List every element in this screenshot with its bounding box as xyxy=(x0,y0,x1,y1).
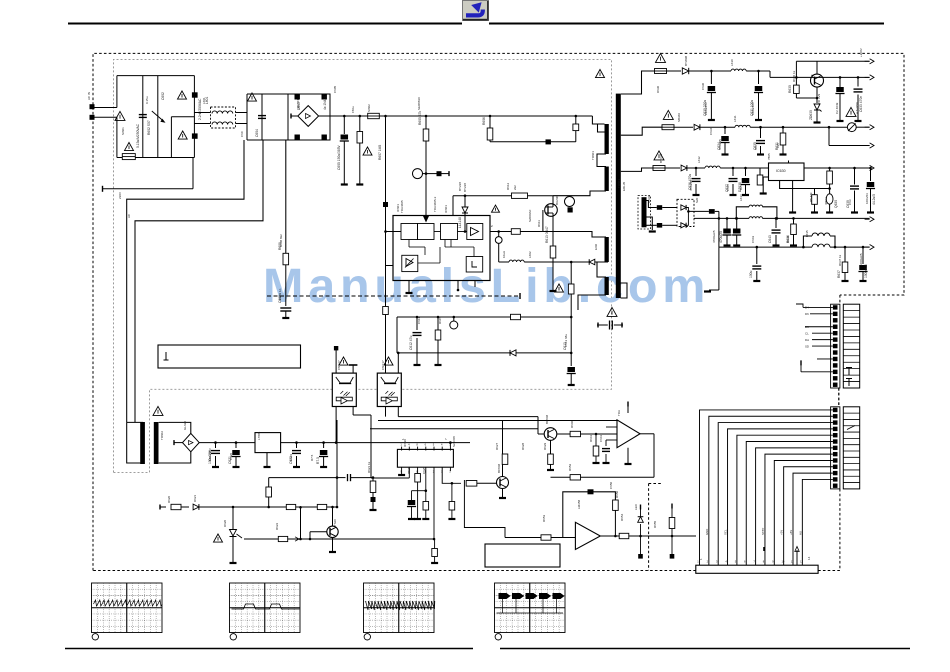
regulator ground pin xyxy=(792,181,794,212)
svg-text:AC IN: AC IN xyxy=(87,92,91,100)
transistor T620 xyxy=(327,526,338,537)
feedback capacitor C650 xyxy=(563,492,616,538)
dashed border segment bottom-right xyxy=(648,484,650,571)
capacitor C631 xyxy=(758,71,760,84)
svg-text:TDA: TDA xyxy=(617,410,621,416)
long feedback wire xyxy=(378,420,617,422)
primary winding bar 2 xyxy=(605,167,609,192)
svg-text:IC601: IC601 xyxy=(396,204,400,212)
long pin wire to SCR xyxy=(433,467,435,539)
svg-text:EI40: EI40 xyxy=(594,243,598,250)
waveform grid 4 xyxy=(495,583,566,633)
feedback winding bar xyxy=(605,237,609,262)
svg-text:C620: C620 xyxy=(229,452,233,460)
pin test circle xyxy=(495,237,502,244)
svg-text:+5V: +5V xyxy=(780,530,784,535)
16V rail xyxy=(694,217,749,219)
svg-text:C612 47u: C612 47u xyxy=(409,336,413,350)
op-amp IC622 xyxy=(575,522,600,549)
snubber branch xyxy=(575,116,577,124)
svg-text:BYW98: BYW98 xyxy=(684,55,688,66)
svg-text:LM358: LM358 xyxy=(577,499,581,509)
resistor R636 xyxy=(793,218,795,224)
capacitor C613 xyxy=(570,353,572,366)
resistor R608 xyxy=(283,253,289,264)
capacitor C642 xyxy=(736,218,738,228)
svg-text:IC601: IC601 xyxy=(444,205,448,213)
svg-text:R655: R655 xyxy=(653,520,657,528)
collector wire out xyxy=(816,61,818,74)
feedback resistor R650 xyxy=(613,500,619,510)
rail +A diode xyxy=(682,68,688,74)
wire staircase 2 xyxy=(135,140,263,422)
svg-text:AU: AU xyxy=(798,531,802,535)
Y-capacitor across isolation xyxy=(607,307,617,316)
wire staircase 1 xyxy=(127,140,244,422)
optocoupler IC603 xyxy=(377,373,401,406)
svg-text:LL4148: LL4148 xyxy=(458,217,462,228)
svg-text:R605 47k: R605 47k xyxy=(418,111,422,125)
warning triangle xyxy=(555,284,564,292)
svg-text:L602: L602 xyxy=(528,251,532,258)
svg-text:IC630: IC630 xyxy=(776,169,786,173)
svg-text:R637: R637 xyxy=(837,270,841,278)
IC internal wires xyxy=(434,231,441,233)
capacitor C602 xyxy=(192,92,198,97)
capacitor C622 xyxy=(296,443,298,448)
gate resistor R622 xyxy=(244,538,278,540)
core right lower step xyxy=(621,283,628,298)
regulator top pin xyxy=(788,161,790,164)
waveform grid 1 xyxy=(92,583,163,633)
svg-text:C604: C604 xyxy=(255,129,259,137)
gate resistor R611 xyxy=(511,229,520,235)
optocoupler IC602 pins xyxy=(335,350,337,373)
page footer rule right xyxy=(500,648,910,650)
waveform grid 3 xyxy=(364,583,435,633)
warning triangle xyxy=(339,357,348,365)
aux winding taps xyxy=(647,201,657,208)
aux winding bar xyxy=(642,197,647,227)
clamp diode D611 xyxy=(464,196,466,232)
bottom connector bar xyxy=(696,565,818,573)
svg-text:150u: 150u xyxy=(351,106,355,113)
svg-text:R636: R636 xyxy=(786,235,790,243)
IC output wire xyxy=(490,231,511,233)
warning triangle xyxy=(115,111,125,120)
warning triangle xyxy=(656,53,666,62)
secondary tap wires xyxy=(621,71,656,94)
svg-text:ZD 3V9: ZD 3V9 xyxy=(817,93,821,104)
svg-text:R620: R620 xyxy=(167,495,171,503)
warning triangle xyxy=(153,406,163,415)
fuse SI601 xyxy=(122,154,135,160)
svg-text:100n/63: 100n/63 xyxy=(865,193,869,204)
svg-text:R637 1k: R637 1k xyxy=(838,254,842,266)
test circle xyxy=(453,317,455,321)
IC inner block 2 xyxy=(418,224,435,240)
rail jog xyxy=(769,71,771,77)
warning triangle xyxy=(654,151,664,160)
svg-text:L7805: L7805 xyxy=(257,431,261,440)
svg-text:C605 150u/385V: C605 150u/385V xyxy=(337,144,341,170)
op-amp output xyxy=(600,535,619,537)
VDR R602 xyxy=(152,111,164,122)
input network xyxy=(505,537,541,539)
IC620 right pin to T621 xyxy=(442,467,461,483)
svg-text:BYV28: BYV28 xyxy=(659,153,663,163)
mains fuse SI602 xyxy=(368,113,380,118)
capacitor C630 xyxy=(710,71,712,84)
clamp resistor R612 xyxy=(512,193,528,198)
transistor T622 xyxy=(544,428,557,441)
supply resistor R617 xyxy=(511,314,521,319)
optocoupler IC603 pins xyxy=(385,266,387,307)
CN1 terminal stub xyxy=(801,371,833,373)
svg-text:C622: C622 xyxy=(289,453,293,461)
svg-text:0.15u/M250VAC: 0.15u/M250VAC xyxy=(136,123,140,148)
source resistor R613 xyxy=(550,246,556,258)
svg-text:SB360: SB360 xyxy=(677,113,681,122)
svg-text:ManualsLib.com: ManualsLib.com xyxy=(263,259,710,313)
startup feed wire xyxy=(490,141,576,143)
svg-text:L631: L631 xyxy=(733,115,737,122)
primary winding bar xyxy=(605,124,609,154)
svg-text:SI602: SI602 xyxy=(367,104,371,112)
wire to opto feedback xyxy=(408,467,410,478)
svg-text:C605: C605 xyxy=(333,85,337,93)
svg-text:C625: C625 xyxy=(422,466,426,474)
svg-text:Q630: Q630 xyxy=(834,200,838,208)
svg-text:CNY17: CNY17 xyxy=(381,360,385,370)
svg-text:C60: C60 xyxy=(240,131,244,137)
wire to audio mute xyxy=(449,467,451,471)
harness stub terminal xyxy=(796,550,798,565)
warning triangle xyxy=(846,107,856,116)
inductor L631 xyxy=(735,125,750,127)
svg-text:R7.5: R7.5 xyxy=(310,454,314,461)
svg-text:GND: GND xyxy=(705,529,709,535)
svg-text:C613 68u: C613 68u xyxy=(564,334,568,347)
grid circle xyxy=(364,634,370,640)
svg-text:C637: C637 xyxy=(726,183,730,191)
svg-text:T620: T620 xyxy=(333,519,337,526)
svg-text:47n: 47n xyxy=(754,145,758,150)
page footer rule left xyxy=(65,648,473,650)
svg-text:C2 4049: C2 4049 xyxy=(835,102,839,114)
inductor L633 bypass loop xyxy=(736,207,749,219)
outer dashed border xyxy=(93,53,904,570)
IC bottom pins xyxy=(408,281,410,293)
regulator IC630 xyxy=(769,163,805,181)
rail +A wire xyxy=(707,70,731,72)
capacitor C632 xyxy=(839,77,841,87)
resistor R630 xyxy=(795,76,798,79)
drain test circle xyxy=(565,197,575,207)
svg-text:BUZ90: BUZ90 xyxy=(555,195,559,205)
choke L635 xyxy=(812,244,830,247)
part number label box xyxy=(158,345,301,368)
svg-text:R608 8k2: R608 8k2 xyxy=(279,234,283,247)
svg-text:LED: LED xyxy=(634,503,638,510)
capacitor C640 xyxy=(870,168,872,181)
svg-text:S24C08: S24C08 xyxy=(452,436,456,447)
svg-text:C63: C63 xyxy=(848,199,852,205)
svg-text:C643: C643 xyxy=(751,235,755,243)
capacitor C644 xyxy=(862,247,864,264)
svg-text:CNY17: CNY17 xyxy=(337,360,341,370)
svg-text:4x 1N4007: 4x 1N4007 xyxy=(323,94,327,110)
standby lower rail xyxy=(159,505,161,510)
svg-text:GL601: GL601 xyxy=(296,99,300,108)
inductor L633 xyxy=(749,217,763,219)
MOSFET T601 xyxy=(545,204,558,217)
capacitor C637 xyxy=(732,168,734,176)
transformer TR601 core xyxy=(616,94,621,298)
rail +A fuse xyxy=(655,69,667,74)
rail 3 fuse xyxy=(653,166,665,171)
svg-text:ZD630: ZD630 xyxy=(809,110,813,120)
svg-text:100u: 100u xyxy=(749,270,753,278)
vcc feed resistor R618 xyxy=(570,262,572,284)
thyristor D620 xyxy=(232,507,234,529)
svg-text:100u/40V: 100u/40V xyxy=(751,102,755,115)
svg-text:SD: SD xyxy=(805,344,809,348)
svg-text:470u/25: 470u/25 xyxy=(689,180,693,191)
warning triangle xyxy=(363,147,372,155)
capacitor C643 xyxy=(775,218,777,228)
capacitor C620 xyxy=(215,443,217,448)
open link symbol xyxy=(847,123,856,132)
svg-text:4.7u/250: 4.7u/250 xyxy=(855,102,859,114)
IC inner block 1 xyxy=(401,224,418,240)
mains connector xyxy=(90,104,95,109)
warning triangle xyxy=(492,205,500,212)
warning triangle xyxy=(663,110,673,119)
filter box wires xyxy=(117,75,194,77)
svg-text:D4: D4 xyxy=(805,306,809,310)
svg-text:10uH: 10uH xyxy=(502,251,506,258)
svg-text:SI601: SI601 xyxy=(121,127,125,135)
svg-text:7805: 7805 xyxy=(767,153,771,160)
svg-text:L632: L632 xyxy=(697,156,701,163)
inductor L630 xyxy=(731,69,746,71)
rail link wire xyxy=(300,507,302,539)
rail 2 fuse xyxy=(662,125,674,130)
svg-text:CL: CL xyxy=(805,331,809,335)
resistor R634 xyxy=(829,168,831,171)
svg-text:470u/25: 470u/25 xyxy=(719,231,723,243)
capacitor C638 xyxy=(745,168,747,176)
svg-text:BC848: BC848 xyxy=(545,414,549,424)
resistor R625 xyxy=(417,467,419,473)
IC inner block ref xyxy=(402,255,418,271)
resistor R624 xyxy=(317,504,319,507)
svg-text:230V: 230V xyxy=(118,192,122,199)
svg-text:L633: L633 xyxy=(739,194,743,201)
svg-text:R628: R628 xyxy=(521,442,525,450)
capacitor C635 xyxy=(760,127,762,138)
regulator IC620 xyxy=(255,433,281,453)
svg-text:R615: R615 xyxy=(438,316,442,324)
resistor R637 xyxy=(844,247,846,262)
svg-text:ERL35: ERL35 xyxy=(622,181,626,191)
inductor L632 xyxy=(705,166,720,168)
warning triangle xyxy=(125,142,134,150)
capacitor C605 xyxy=(343,116,345,134)
capacitor C609 xyxy=(280,307,291,309)
waveform grid 2 xyxy=(230,583,301,633)
capacitor C601 xyxy=(139,114,147,116)
service label box xyxy=(485,544,560,567)
op-amp input resistors xyxy=(606,426,617,428)
harness terminal xyxy=(763,547,765,551)
aux rail vertical xyxy=(718,211,720,247)
svg-text:2k2: 2k2 xyxy=(513,185,517,190)
connector ladder CN1 pin column xyxy=(831,304,840,388)
resistor R635 xyxy=(814,189,816,195)
svg-text:4MHz: 4MHz xyxy=(824,197,828,205)
feedback wire with coil xyxy=(498,243,500,262)
regulator feedback wire xyxy=(780,181,830,189)
test point circle xyxy=(413,169,423,179)
svg-text:C634: C634 xyxy=(709,127,713,135)
svg-text:TDA4605-3: TDA4605-3 xyxy=(433,196,437,212)
svg-text:D633: D633 xyxy=(647,195,651,203)
svg-text:D6: D6 xyxy=(805,312,809,316)
resistor R627 xyxy=(451,482,454,485)
connector ladder CN1 xyxy=(843,304,859,388)
svg-text:1k5: 1k5 xyxy=(776,143,780,148)
warning triangle xyxy=(214,534,223,542)
svg-text:R5 47k: R5 47k xyxy=(809,192,813,202)
capacitor C636 xyxy=(695,168,697,176)
capacitor C641 xyxy=(726,218,728,228)
svg-text:R613 0R47: R613 0R47 xyxy=(545,226,549,243)
svg-text:1000u/16: 1000u/16 xyxy=(864,264,868,278)
resistor R623 xyxy=(268,487,270,507)
svg-text:R629: R629 xyxy=(543,442,547,450)
svg-text:L635: L635 xyxy=(805,230,809,237)
rail 2 diode xyxy=(694,124,700,130)
svg-text:R607 1M5: R607 1M5 xyxy=(378,145,382,160)
capacitor C603 xyxy=(192,133,198,138)
resistor R626 xyxy=(432,549,438,557)
IC inner block 3 xyxy=(441,224,458,240)
IC inner block latch xyxy=(466,257,483,273)
dashed link between connectors xyxy=(838,388,840,407)
rail 3 diode xyxy=(681,165,687,171)
resistor R651 xyxy=(671,529,673,536)
svg-text:0.15u: 0.15u xyxy=(145,96,149,104)
svg-text:DA: DA xyxy=(805,338,809,342)
svg-text:D630: D630 xyxy=(656,85,660,93)
page header rule right xyxy=(489,23,884,25)
resonator Q630 xyxy=(826,194,833,204)
warning triangle xyxy=(178,131,187,139)
CN1 T marks xyxy=(846,368,852,387)
svg-text:470u/35: 470u/35 xyxy=(718,139,722,150)
resistor R632 xyxy=(759,168,761,175)
svg-text:C630: C630 xyxy=(701,82,705,90)
svg-text:R606: R606 xyxy=(482,117,486,125)
svg-text:R654: R654 xyxy=(620,513,624,521)
svg-text:+200V: +200V xyxy=(859,48,863,57)
svg-text:D621: D621 xyxy=(193,494,197,502)
harness staircase wires xyxy=(700,410,833,565)
standby secondary loop xyxy=(159,422,191,433)
capacitor C604 xyxy=(258,115,266,117)
bridge rectifier GL601 xyxy=(288,94,330,140)
rail 2b out xyxy=(828,127,830,145)
bridge capacitors xyxy=(295,95,300,100)
standby transformer TR602 bars xyxy=(140,422,145,464)
svg-text:R630 1k: R630 1k xyxy=(792,70,796,82)
svg-text:TR601: TR601 xyxy=(591,151,595,160)
optocoupler IC602 xyxy=(332,373,356,406)
svg-text:SER8810: SER8810 xyxy=(417,97,421,110)
+310V rail xyxy=(319,115,593,117)
svg-text:D620: D620 xyxy=(223,519,227,527)
page header rule left xyxy=(68,23,462,25)
wires after choke xyxy=(246,94,248,140)
svg-text:R602 S07: R602 S07 xyxy=(147,120,151,135)
svg-text:STBY: STBY xyxy=(761,528,765,535)
resistor R604 xyxy=(359,116,361,132)
svg-text:R622: R622 xyxy=(275,522,279,530)
warning triangle xyxy=(248,93,257,101)
svg-text:R627: R627 xyxy=(495,442,499,450)
hot ground dashed bus xyxy=(267,295,519,297)
svg-text:R7.5: R7.5 xyxy=(316,457,320,464)
resistor R616 xyxy=(437,317,439,330)
svg-text:S20: S20 xyxy=(695,197,699,203)
primary winding wires xyxy=(592,116,604,124)
svg-text:4700u/25: 4700u/25 xyxy=(712,230,716,243)
LED D650 xyxy=(640,524,642,536)
svg-text:C609 1n: C609 1n xyxy=(278,288,282,300)
svg-text:DZ4: DZ4 xyxy=(739,184,743,190)
svg-text:R612: R612 xyxy=(506,182,510,190)
capacitor C634 xyxy=(724,127,726,134)
svg-text:100u/35V: 100u/35V xyxy=(208,448,212,461)
regulator left ground pin xyxy=(763,177,768,193)
primary side dashed box xyxy=(114,59,612,472)
transistor T621 xyxy=(497,477,509,489)
svg-text:220u/25V: 220u/25V xyxy=(704,102,708,115)
svg-text:TR602: TR602 xyxy=(160,431,164,440)
collector wire to opamp xyxy=(557,430,566,432)
svg-text:C643: C643 xyxy=(768,235,772,243)
line choke L601 xyxy=(211,107,236,128)
drain clamp rail xyxy=(453,195,553,197)
capacitor C639 xyxy=(854,168,856,185)
wire from rail down xyxy=(336,420,338,507)
standby rail xyxy=(199,442,337,444)
grid circle xyxy=(230,634,236,640)
CN1 stub wires xyxy=(803,306,833,308)
IC620 top pins xyxy=(401,447,403,451)
connector ladder CN2 pin column xyxy=(831,407,840,489)
warning triangle xyxy=(596,69,605,77)
resistor divider xyxy=(589,434,591,455)
IC inner block amp xyxy=(467,224,483,240)
capacitor C645 xyxy=(756,246,759,249)
IC620 control IC xyxy=(397,449,453,467)
svg-text:R650: R650 xyxy=(615,490,619,498)
lower rail 2 xyxy=(551,476,655,478)
capacitor C612 xyxy=(416,317,418,330)
